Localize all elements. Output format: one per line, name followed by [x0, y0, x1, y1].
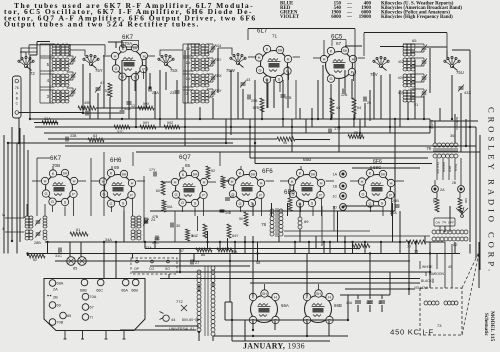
- cap 29B: [247, 95, 249, 100]
- wire: [396, 180, 404, 182]
- wire: [232, 340, 330, 342]
- svg-text:38Y: 38Y: [216, 89, 223, 93]
- wire: [212, 98, 214, 119]
- connector block: [44, 279, 145, 331]
- wire: [465, 119, 467, 146]
- wire: [345, 40, 347, 47]
- trimmer 43Y: [241, 82, 246, 84]
- svg-text:28B: 28B: [34, 241, 41, 245]
- wire: [97, 93, 99, 119]
- svg-text:38X: 38X: [216, 74, 223, 78]
- wire: [291, 119, 293, 152]
- wire: [350, 180, 359, 182]
- svg-text:YELLOW: YELLOW: [414, 286, 429, 290]
- wire: [266, 180, 274, 182]
- svg-text:52: 52: [211, 169, 215, 173]
- resistor 63: [88, 138, 104, 142]
- svg-text:CROSLEY RADIO CORP.: CROSLEY RADIO CORP.: [487, 107, 497, 275]
- wire: [69, 44, 71, 56]
- wire: [103, 55, 105, 108]
- resistor 62: [28, 254, 45, 258]
- svg-text:17Z: 17Z: [334, 127, 341, 131]
- wire: [182, 207, 184, 212]
- wire: [454, 114, 456, 143]
- wire: [293, 56, 300, 58]
- coil 89: [298, 217, 302, 221]
- svg-text:75U: 75U: [456, 70, 464, 75]
- wire: [225, 119, 227, 143]
- wire: [300, 166, 302, 170]
- wire: [252, 254, 254, 297]
- svg-text:H: H: [131, 180, 134, 185]
- wire: [451, 75, 453, 119]
- svg-text:40Y: 40Y: [398, 76, 405, 80]
- wire: [48, 138, 277, 140]
- wire: [250, 282, 420, 284]
- wire: [331, 114, 333, 119]
- wire: [363, 33, 365, 57]
- wire: [154, 242, 156, 249]
- wire: [47, 242, 49, 254]
- svg-text:64: 64: [357, 106, 361, 110]
- wire: [115, 42, 117, 48]
- wire: [267, 83, 269, 108]
- resistor 59Z2: [164, 125, 180, 129]
- wire: [212, 336, 214, 341]
- wire: [436, 254, 438, 270]
- svg-text:1C: 1C: [332, 195, 337, 199]
- svg-text:23: 23: [170, 91, 174, 95]
- svg-text:90: 90: [283, 141, 287, 145]
- svg-text:SH: SH: [316, 292, 321, 296]
- transformer 79: [433, 143, 437, 147]
- svg-text:5IA: 5IA: [167, 205, 173, 209]
- wire: [289, 184, 291, 198]
- wire: [274, 321, 276, 330]
- rf trimmers: [211, 46, 216, 48]
- wire: [299, 108, 301, 119]
- wire: [8, 142, 233, 144]
- svg-text:H: H: [174, 179, 177, 184]
- wire: [132, 271, 430, 273]
- svg-text:S: S: [381, 200, 384, 205]
- wire: [252, 207, 254, 217]
- cap 38: [85, 111, 87, 116]
- svg-text:68B: 68B: [80, 289, 87, 293]
- svg-text:78: 78: [261, 222, 266, 227]
- wire: [345, 45, 362, 47]
- wire: [312, 207, 314, 217]
- wire: [132, 198, 134, 217]
- wire: [306, 254, 308, 297]
- svg-text:G: G: [258, 67, 261, 72]
- wire: [225, 319, 348, 321]
- resistor 59Y: [114, 125, 130, 129]
- svg-text:85: 85: [73, 267, 77, 271]
- svg-text:80V-60~80: 80V-60~80: [182, 318, 199, 322]
- svg-text:K: K: [182, 172, 185, 177]
- wire: [300, 206, 302, 212]
- wire: [469, 244, 471, 254]
- tube 6L7 71: [261, 51, 288, 78]
- svg-text:44: 44: [171, 317, 176, 322]
- wire top right long bus: [248, 28, 355, 30]
- wire: [333, 206, 335, 231]
- svg-text:34B: 34B: [225, 211, 232, 215]
- svg-text:30: 30: [176, 224, 180, 228]
- wire: [217, 48, 219, 93]
- resistor 86: [196, 248, 212, 252]
- wire: [478, 242, 480, 288]
- svg-text:67: 67: [336, 41, 342, 46]
- svg-text:H: H: [143, 53, 146, 58]
- svg-text:OFF: OFF: [448, 221, 454, 225]
- svg-text:58: 58: [256, 261, 260, 265]
- wire: [3, 135, 5, 254]
- svg-text:31C: 31C: [55, 254, 62, 258]
- svg-text:88: 88: [230, 195, 234, 199]
- svg-text:66A: 66A: [281, 303, 289, 308]
- wire: [244, 236, 246, 254]
- wire: [279, 82, 281, 93]
- svg-text:VIOLET: VIOLET: [280, 15, 300, 20]
- wire: [37, 41, 50, 43]
- speaker 73: [420, 288, 462, 335]
- rectifier 5Z4 66B: [305, 296, 332, 323]
- wire: [32, 180, 41, 182]
- wire: [220, 180, 229, 182]
- svg-text:SH: SH: [311, 172, 316, 176]
- wire: [358, 57, 365, 59]
- svg-text:H: H: [44, 178, 47, 183]
- resistor 54B: [458, 198, 462, 212]
- resistor 33A: [42, 121, 58, 125]
- wire: [459, 193, 461, 199]
- svg-text:G: G: [114, 66, 117, 71]
- svg-text:13: 13: [184, 92, 188, 96]
- label box 70A: [122, 41, 139, 48]
- wire: [89, 73, 91, 119]
- svg-text:65: 65: [412, 38, 417, 43]
- wire: [80, 242, 82, 257]
- svg-text:66B: 66B: [334, 303, 342, 308]
- wire: [305, 119, 307, 133]
- svg-text:6K7: 6K7: [122, 34, 134, 41]
- wire rect SH stubs: [264, 284, 266, 290]
- wire: [295, 139, 330, 141]
- wire: [351, 79, 353, 99]
- wire: [135, 71, 137, 127]
- svg-text:59Z: 59Z: [167, 121, 174, 125]
- dial lamps 85: [67, 257, 76, 266]
- wire: [381, 305, 383, 312]
- wire: [16, 143, 18, 254]
- wire: [154, 91, 156, 119]
- wire: [343, 205, 380, 207]
- svg-text:3: 3: [47, 94, 50, 99]
- svg-text:SH: SH: [381, 172, 386, 176]
- wire: [45, 241, 406, 243]
- wire: [248, 56, 256, 58]
- wire: [227, 238, 229, 250]
- cap 17Z: [328, 129, 330, 134]
- wire: [27, 254, 29, 257]
- wire: [213, 335, 348, 337]
- switch 75Y: [89, 62, 92, 65]
- cap 27: [190, 260, 192, 265]
- wire: [149, 73, 151, 89]
- wire: [399, 90, 401, 127]
- wire: [323, 40, 325, 56]
- svg-text:29B: 29B: [251, 99, 258, 103]
- svg-text:SH: SH: [193, 172, 198, 176]
- wire: [408, 242, 410, 295]
- wire: [434, 121, 436, 143]
- wire: [280, 180, 289, 182]
- svg-text:K: K: [369, 170, 372, 175]
- wire: [29, 55, 31, 119]
- wire: [132, 152, 134, 166]
- wire: [326, 180, 334, 182]
- svg-text:1A: 1A: [333, 173, 338, 177]
- wire: [44, 204, 46, 216]
- wire: [369, 254, 371, 300]
- wire top left long: [29, 44, 105, 46]
- wire: [282, 80, 284, 127]
- svg-text:H: H: [291, 179, 294, 184]
- wire: [137, 180, 145, 182]
- wire: [436, 193, 438, 199]
- wire: [52, 206, 54, 212]
- resistor 51A: [162, 200, 166, 212]
- wire: [403, 43, 415, 45]
- svg-text:SH: SH: [122, 172, 127, 176]
- terminal strip 76: [13, 76, 22, 118]
- svg-text:K: K: [52, 171, 55, 176]
- cap 88: [225, 197, 230, 199]
- svg-text:69: 69: [57, 304, 61, 308]
- wire switch72 feeds: [21, 48, 37, 61]
- wire: [287, 203, 289, 216]
- svg-text:27: 27: [195, 261, 199, 265]
- svg-text:H: H: [352, 56, 355, 61]
- wire: [143, 71, 145, 80]
- wire: [446, 33, 448, 59]
- wire: [143, 176, 145, 242]
- wire: [240, 166, 242, 170]
- svg-text:17Y: 17Y: [149, 168, 156, 172]
- svg-text:G: G: [174, 192, 177, 197]
- wire: [35, 126, 476, 128]
- wire: [19, 128, 21, 242]
- wire: [338, 79, 340, 152]
- svg-text:2A: 2A: [440, 188, 445, 192]
- wire: [103, 55, 111, 57]
- IF can left stubs: [5, 217, 24, 219]
- wire: [288, 72, 290, 81]
- svg-text:71: 71: [272, 34, 278, 39]
- wire: [369, 295, 371, 299]
- antenna coil bank: [52, 44, 56, 47]
- wire: [451, 244, 453, 288]
- wire: [250, 157, 428, 159]
- svg-text:75Y: 75Y: [95, 68, 103, 73]
- svg-text:SH: SH: [262, 292, 267, 296]
- wire: [345, 288, 415, 290]
- wire: [234, 242, 236, 254]
- wire: [328, 321, 330, 336]
- cap 17Y: [153, 172, 155, 177]
- wire: [344, 83, 346, 94]
- IF transformer 1: [25, 216, 29, 219]
- wire: [121, 60, 123, 110]
- svg-text:2A: 2A: [53, 287, 58, 292]
- wire: [120, 329, 196, 331]
- cap 31C: [58, 248, 60, 253]
- wire: [26, 204, 28, 216]
- svg-text:74: 74: [442, 221, 446, 225]
- band table: [280, 2, 462, 21]
- svg-text:2B: 2B: [53, 295, 58, 300]
- wire: [329, 242, 331, 254]
- tube 6Q7 85: [176, 176, 203, 203]
- wire: [321, 198, 323, 217]
- svg-text:MAROON: MAROON: [429, 272, 444, 276]
- wire: [136, 151, 480, 153]
- svg-text:H: H: [361, 179, 364, 184]
- wire: [344, 236, 346, 254]
- resistor 84Z: [203, 224, 207, 238]
- wire: [150, 210, 395, 212]
- svg-text:RED: RED: [448, 166, 452, 172]
- wire: [382, 207, 384, 217]
- wire: [252, 321, 254, 330]
- wire: [436, 158, 438, 180]
- svg-text:GREEN: GREEN: [442, 162, 446, 172]
- svg-text:Schematic: Schematic: [483, 313, 489, 336]
- svg-text:85: 85: [185, 163, 191, 168]
- resistor 47A: [221, 176, 225, 188]
- wire: [389, 272, 391, 295]
- wire: [254, 80, 256, 164]
- wire: [370, 166, 372, 170]
- wire: [160, 278, 420, 280]
- wire: [364, 103, 366, 127]
- wire: [179, 249, 181, 273]
- svg-text:18B: 18B: [366, 301, 372, 305]
- svg-text:ON: ON: [436, 221, 441, 225]
- svg-text:P: P: [72, 191, 75, 196]
- wire: [198, 284, 200, 292]
- wire: [284, 235, 430, 237]
- trimmer 43: [96, 87, 101, 89]
- wire: [219, 242, 221, 250]
- svg-text:S: S: [194, 200, 197, 205]
- cap 19A: [355, 300, 361, 302]
- resistor 8B: [186, 229, 190, 241]
- svg-text:SH: SH: [63, 171, 68, 175]
- dashed band-switch box: [131, 258, 177, 274]
- wire: [148, 55, 155, 57]
- svg-text:H: H: [328, 294, 331, 299]
- resistor 55: [348, 135, 364, 139]
- wire: [273, 79, 275, 108]
- wire: [19, 112, 83, 114]
- wire: [340, 294, 390, 296]
- svg-text:28A: 28A: [152, 91, 159, 95]
- wire: [174, 211, 176, 242]
- wire: [380, 46, 404, 48]
- wire: [27, 253, 460, 255]
- wire: [36, 42, 38, 56]
- svg-text:G: G: [361, 191, 364, 196]
- svg-text:G: G: [329, 76, 332, 81]
- osc coil bank: [403, 44, 407, 47]
- svg-text:OP: OP: [134, 267, 140, 271]
- svg-text:76: 76: [15, 86, 19, 90]
- svg-text:4: 4: [47, 78, 50, 83]
- wire: [381, 295, 383, 299]
- wire: [244, 320, 246, 341]
- wire: [197, 216, 199, 231]
- wire: [295, 80, 297, 119]
- wire: [159, 70, 161, 127]
- cap 31A: [120, 110, 125, 112]
- wire: [475, 127, 477, 258]
- wire: [108, 41, 123, 43]
- wire: [145, 57, 147, 108]
- resistor 61: [70, 232, 88, 236]
- svg-text:SO: SO: [165, 267, 170, 271]
- junction dots: [29, 118, 31, 120]
- wire: [347, 295, 349, 320]
- wire: [225, 301, 232, 303]
- wire: [287, 66, 289, 108]
- resistor 60: [161, 181, 165, 195]
- wire: [193, 254, 195, 263]
- svg-text:85: 85: [67, 314, 71, 318]
- tube 6K7 70A: [116, 50, 143, 77]
- connector pins: [64, 331, 66, 340]
- wire: [242, 89, 244, 119]
- wire: [83, 112, 122, 114]
- switch 75W: [236, 61, 239, 64]
- svg-text:60: 60: [156, 189, 160, 193]
- wire: [198, 332, 200, 341]
- resistor 57B: [260, 98, 264, 112]
- svg-text:SH: SH: [278, 48, 283, 52]
- svg-text:13: 13: [131, 104, 135, 108]
- svg-text:P: P: [130, 192, 133, 197]
- wire: [452, 49, 470, 51]
- wire: [34, 122, 58, 124]
- svg-text:69: 69: [114, 165, 120, 170]
- svg-text:84Y: 84Y: [232, 234, 239, 238]
- switch 75U: [450, 64, 453, 67]
- wire: [429, 48, 431, 93]
- resistor 77b: [406, 240, 426, 244]
- wire: [284, 230, 370, 232]
- svg-text:19A: 19A: [346, 301, 353, 305]
- wire: [255, 163, 432, 165]
- wire: [7, 143, 9, 254]
- wire: [479, 135, 481, 270]
- wire: [20, 51, 26, 53]
- cap 30: [170, 223, 172, 228]
- choke 82: [432, 230, 436, 234]
- resistor 88: [288, 198, 292, 211]
- wire: [247, 29, 249, 41]
